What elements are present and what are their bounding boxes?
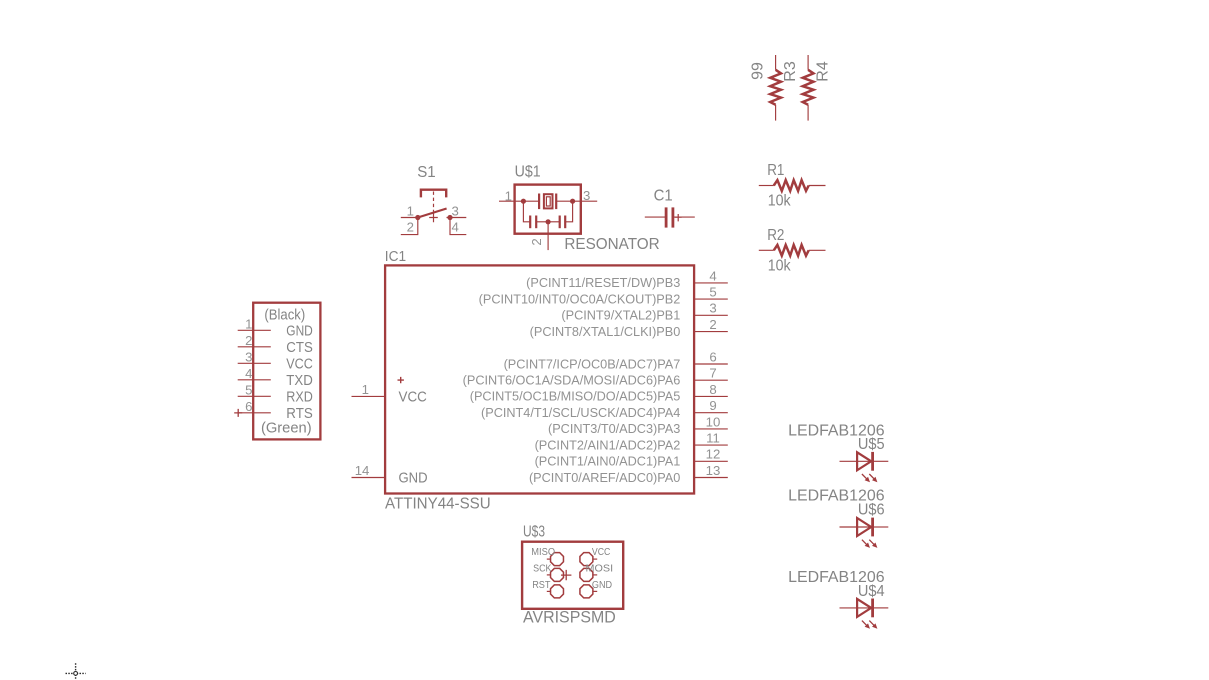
crystal body	[544, 194, 553, 208]
svg-text:1: 1	[407, 204, 414, 219]
lever arm	[418, 209, 447, 218]
right plate	[672, 207, 675, 227]
pad MISO	[551, 553, 564, 566]
IC1 body box	[385, 265, 694, 493]
svg-text:3: 3	[245, 350, 252, 365]
svg-text:4: 4	[709, 268, 716, 283]
connector pin 3 (VCC) wire	[238, 362, 271, 364]
cathode bar	[871, 518, 874, 537]
cathode wire	[873, 460, 889, 462]
svg-text:99: 99	[749, 62, 766, 80]
svg-text:3: 3	[709, 301, 716, 316]
diode triangle	[857, 599, 871, 617]
svg-text:6: 6	[709, 349, 716, 364]
svg-text:14: 14	[355, 463, 370, 478]
svg-text:2: 2	[529, 238, 544, 245]
right lead wire	[809, 249, 826, 251]
cathode wire	[873, 607, 889, 609]
left plate	[665, 207, 668, 227]
pin 3 (PB1) wire	[694, 314, 728, 316]
svg-text:U$3: U$3	[523, 524, 545, 541]
plus sign for VCC	[398, 377, 404, 383]
svg-text:(PCINT3/T0/ADC3)PA3: (PCINT3/T0/ADC3)PA3	[548, 422, 680, 436]
pin 1 wire	[401, 217, 418, 219]
svg-text:(PCINT0/AREF/ADC0)PA0: (PCINT0/AREF/ADC0)PA0	[529, 471, 680, 485]
pin 8 (PA5) wire	[694, 395, 728, 397]
connector box	[253, 303, 320, 440]
pin 2 wire	[547, 222, 549, 250]
LED U$6	[788, 488, 888, 548]
svg-text:MOSI: MOSI	[586, 563, 614, 574]
bottom lead wire	[807, 105, 809, 121]
svg-text:10k: 10k	[768, 193, 792, 210]
pad VCC	[580, 553, 593, 566]
crystal right plate	[555, 194, 557, 210]
svg-text:(Green): (Green)	[261, 419, 312, 436]
button actuator bracket	[421, 190, 446, 198]
center junction dot	[546, 219, 551, 224]
light arrow 2	[869, 540, 875, 546]
svg-text:(PCINT11/RESET/DW)PB3: (PCINT11/RESET/DW)PB3	[526, 276, 680, 290]
svg-text:(PCINT1/AIN0/ADC1)PA1: (PCINT1/AIN0/ADC1)PA1	[535, 455, 681, 469]
junction dot left	[521, 199, 526, 204]
crystal inner electrode	[546, 197, 550, 206]
cathode bar	[871, 452, 874, 471]
bottom lead wire	[775, 105, 777, 121]
pad GND	[580, 585, 593, 598]
left internal cap plates	[529, 216, 531, 229]
svg-text:1: 1	[245, 317, 252, 332]
svg-text:U$1: U$1	[515, 164, 541, 181]
pin 1 wire	[499, 200, 539, 202]
pin 4 wire	[450, 218, 466, 235]
svg-text:(PCINT4/T1/SCL/USCK/ADC4)PA4: (PCINT4/T1/SCL/USCK/ADC4)PA4	[481, 406, 680, 420]
svg-text:VCC: VCC	[592, 547, 610, 558]
svg-text:U$6: U$6	[858, 501, 885, 518]
svg-text:2: 2	[709, 317, 716, 332]
svg-text:4: 4	[452, 219, 459, 234]
pin 10 (PA3) wire	[694, 428, 728, 430]
svg-text:SCK: SCK	[533, 563, 552, 574]
zigzag body	[774, 245, 809, 256]
header box	[522, 542, 623, 609]
top lead wire	[775, 55, 777, 70]
resistor R1	[759, 162, 826, 210]
svg-text:8: 8	[709, 382, 716, 397]
zigzag body	[803, 70, 814, 105]
resistor R3	[749, 55, 799, 121]
resistor R2	[759, 227, 826, 275]
wire to center	[536, 221, 548, 223]
svg-text:RST: RST	[532, 580, 550, 591]
pin 3 wire	[556, 200, 597, 202]
LED U$4	[788, 569, 888, 629]
switch S1	[401, 164, 467, 235]
pin 1 (VCC) wire	[352, 395, 386, 397]
right branch wire	[565, 201, 572, 222]
origin cross	[675, 214, 682, 221]
svg-text:RESONATOR: RESONATOR	[564, 236, 659, 253]
svg-text:U$5: U$5	[858, 436, 885, 453]
zigzag body	[774, 180, 809, 191]
wire from center	[548, 221, 560, 223]
svg-text:12: 12	[706, 447, 721, 462]
svg-text:(PCINT6/OC1A/SDA/MOSI/ADC6)PA6: (PCINT6/OC1A/SDA/MOSI/ADC6)PA6	[463, 374, 681, 388]
origin cross on pin 6	[234, 409, 242, 417]
light arrow 1	[862, 621, 868, 627]
svg-text:R2: R2	[767, 227, 784, 244]
pin 5 (PB2) wire	[694, 298, 728, 300]
pad MOSI	[580, 568, 593, 581]
svg-text:(PCINT7/ICP/OC0B/ADC7)PA7: (PCINT7/ICP/OC0B/ADC7)PA7	[504, 357, 681, 371]
pad RST	[551, 585, 564, 598]
light arrow 2	[869, 474, 875, 480]
cathode wire	[873, 526, 889, 528]
top lead wire	[807, 55, 809, 70]
svg-text:GND: GND	[286, 322, 313, 339]
svg-text:5: 5	[245, 383, 252, 398]
pin 4 (PB3) wire	[694, 282, 728, 284]
crystal left plate	[538, 194, 540, 210]
svg-text:2: 2	[407, 219, 414, 234]
pin 14 (GND) wire	[352, 477, 386, 479]
svg-text:1: 1	[505, 188, 512, 203]
light arrow 1	[862, 540, 868, 546]
pin 12 (PA1) wire	[694, 460, 728, 462]
svg-text:S1: S1	[417, 164, 436, 181]
origin cross	[429, 213, 438, 223]
svg-text:U$4: U$4	[858, 583, 885, 600]
connector pin 2 (CTS) wire	[238, 346, 271, 348]
svg-text:TXD: TXD	[286, 372, 313, 389]
sheet origin cross	[66, 663, 86, 680]
left lead wire	[759, 249, 774, 251]
pin 7 (PA6) wire	[694, 379, 728, 381]
zigzag body	[770, 70, 781, 105]
svg-text:3: 3	[452, 204, 459, 219]
light arrow 1	[862, 474, 868, 480]
svg-text:10: 10	[706, 414, 721, 429]
pin 2 wire	[401, 218, 418, 235]
svg-text:(PCINT9/XTAL2)PB1: (PCINT9/XTAL2)PB1	[561, 309, 680, 323]
anode wire	[840, 526, 872, 528]
svg-text:7: 7	[709, 366, 716, 381]
connector pin 4 (TXD) wire	[238, 379, 271, 381]
diode triangle	[857, 518, 871, 536]
svg-text:(PCINT2/AIN1/ADC2)PA2: (PCINT2/AIN1/ADC2)PA2	[535, 438, 681, 452]
svg-text:GND: GND	[592, 580, 612, 591]
svg-text:(Black): (Black)	[264, 306, 305, 323]
left lead wire	[759, 185, 774, 187]
pin 9 (PA4) wire	[694, 412, 728, 414]
svg-text:RXD: RXD	[286, 388, 313, 405]
pin 2 (PB0) wire	[694, 331, 728, 333]
resonator box	[515, 185, 581, 234]
right lead wire	[674, 216, 695, 218]
diode triangle	[857, 452, 871, 470]
ISP header U$3 AVRISPSMD	[522, 524, 623, 627]
anode wire	[840, 460, 872, 462]
svg-text:VCC: VCC	[286, 355, 313, 372]
cathode bar	[871, 599, 874, 618]
LED U$5	[788, 423, 888, 483]
IC U1: IC1 ATTINY44-SSU	[352, 248, 728, 512]
anode wire	[840, 607, 872, 609]
connector pin 1 (GND) wire	[238, 329, 271, 331]
right internal cap plates	[559, 216, 561, 229]
svg-text:11: 11	[706, 431, 720, 446]
svg-text:ATTINY44-SSU: ATTINY44-SSU	[385, 495, 491, 512]
svg-text:GND: GND	[399, 470, 428, 487]
svg-text:R4: R4	[815, 61, 832, 82]
svg-text:C1: C1	[654, 188, 673, 205]
svg-text:9: 9	[709, 398, 716, 413]
resonator U$1	[499, 164, 660, 253]
resistor R4	[803, 55, 832, 121]
pin 11 (PA2) wire	[694, 444, 728, 446]
connector pin 6 (RTS) wire	[238, 412, 271, 414]
svg-text:1: 1	[362, 382, 369, 397]
contact dot left	[415, 215, 420, 220]
actuator dashed link	[433, 192, 435, 212]
pad SCK	[551, 568, 564, 581]
connector pin 5 (RXD) wire	[238, 395, 271, 397]
capacitor C1	[645, 188, 695, 228]
pin 6 (PA7) wire	[694, 363, 728, 365]
svg-text:4: 4	[245, 366, 252, 381]
svg-text:10k: 10k	[768, 258, 792, 275]
svg-text:CTS: CTS	[286, 339, 313, 356]
svg-text:(PCINT8/XTAL1/CLKI)PB0: (PCINT8/XTAL1/CLKI)PB0	[530, 325, 681, 339]
connector (FTDI serial header)	[234, 303, 320, 440]
svg-text:R1: R1	[767, 162, 784, 179]
left branch wire	[523, 201, 530, 222]
svg-text:VCC: VCC	[399, 388, 427, 405]
svg-text:2: 2	[245, 333, 252, 348]
junction dot right	[570, 199, 575, 204]
svg-text:13: 13	[706, 463, 721, 478]
right lead wire	[809, 185, 826, 187]
pin 13 (PA0) wire	[694, 477, 728, 479]
left lead wire	[645, 216, 665, 218]
svg-text:R3: R3	[782, 61, 799, 82]
svg-text:IC1: IC1	[385, 248, 406, 265]
svg-text:5: 5	[709, 285, 716, 300]
svg-text:(PCINT10/INT0/OC0A/CKOUT)PB2: (PCINT10/INT0/OC0A/CKOUT)PB2	[479, 292, 681, 306]
svg-text:3: 3	[583, 188, 590, 203]
svg-text:MISO: MISO	[531, 547, 555, 558]
light arrow 2	[869, 621, 875, 627]
svg-text:AVRISPSMD: AVRISPSMD	[523, 608, 616, 627]
svg-text:(PCINT5/OC1B/MISO/DO/ADC5)PA5: (PCINT5/OC1B/MISO/DO/ADC5)PA5	[470, 390, 681, 404]
svg-text:RTS: RTS	[286, 405, 313, 422]
svg-text:6: 6	[245, 399, 252, 414]
origin cross at SCK	[561, 570, 571, 580]
pin 3 wire	[447, 217, 467, 219]
contact dot right	[447, 215, 452, 220]
